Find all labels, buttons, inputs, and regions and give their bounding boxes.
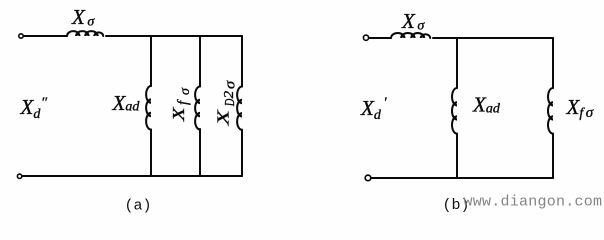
- wire branch 1 (b) lower: [456, 134, 458, 178]
- svg-text:σ: σ: [178, 87, 193, 95]
- wire branch 3 (a) upper: [241, 36, 243, 87]
- svg-text:σ: σ: [222, 80, 238, 89]
- wire branch 2 (a) upper: [199, 36, 201, 87]
- inductor Xσ (b) horizontal coil: [391, 33, 430, 38]
- inductor Xfσ (a) vertical coil: [195, 87, 200, 130]
- svg-text:2: 2: [222, 90, 237, 98]
- wire branch 2 (b) lower: [552, 134, 554, 178]
- wire branch 1 (b) upper: [456, 38, 458, 88]
- svg-text:Xad: Xad: [112, 91, 141, 115]
- svg-text:Xad: Xad: [472, 93, 501, 117]
- wire branch 1 (a) upper: [150, 36, 152, 86]
- wire branch 3 (a) lower: [241, 130, 243, 176]
- terminal bottom-left (a): [17, 174, 21, 178]
- svg-text:www.diangon.com: www.diangon.com: [464, 194, 603, 211]
- wire (b) top segment: [433, 37, 553, 39]
- inductor Xσ (a) horizontal coil: [67, 31, 103, 36]
- svg-text:Xd″: Xd″: [20, 95, 48, 122]
- svg-text:Xfσ: Xfσ: [566, 95, 594, 121]
- wire branch 2 (a) lower: [199, 129, 201, 176]
- wire (b) top-left segment: [370, 37, 392, 39]
- wire branch 2 (b) upper: [552, 38, 554, 88]
- terminal top-left (a): [19, 34, 23, 38]
- inductor Xad (a) vertical coil: [146, 86, 151, 130]
- svg-text:X: X: [213, 109, 232, 126]
- terminal bottom-left (b): [365, 175, 371, 181]
- label Xfσ (a) rotated: [169, 87, 193, 122]
- wire (a) bottom: [23, 175, 242, 177]
- inductor Xfσ (b) vertical coil: [548, 88, 553, 134]
- svg-text:Xσ: Xσ: [71, 5, 95, 30]
- svg-text:Xσ: Xσ: [401, 9, 425, 34]
- inductor Xad (b) vertical coil: [452, 88, 457, 134]
- wire branch 1 (a) lower: [150, 130, 152, 177]
- label XD2σ (a) rotated: [213, 80, 238, 127]
- terminal top-left (b): [363, 35, 368, 40]
- svg-text:(a): (a): [125, 198, 152, 215]
- wire (b) bottom: [372, 177, 554, 179]
- svg-text:f: f: [176, 99, 192, 105]
- inductor XDdσ (a) vertical coil: [237, 87, 242, 130]
- svg-text:D: D: [222, 99, 238, 107]
- wire (a) top-left segment: [24, 35, 67, 37]
- svg-text:Xd′: Xd′: [360, 95, 387, 123]
- svg-text:X: X: [169, 106, 188, 122]
- wire (a) top segment to branches: [106, 35, 242, 37]
